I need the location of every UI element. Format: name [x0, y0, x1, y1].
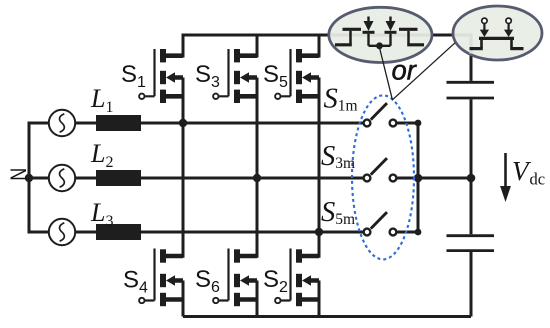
svg-text:or: or [392, 55, 418, 86]
svg-text:dc: dc [530, 170, 546, 189]
svg-text:N: N [6, 168, 31, 181]
